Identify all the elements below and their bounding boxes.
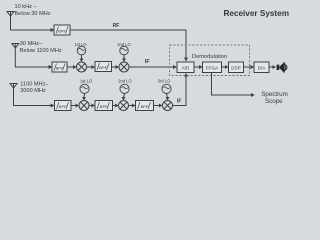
wire LO1 to mixer M1 [81,55,83,59]
wire IF run to A/D [129,66,173,68]
wire mixer M4 to BPF6 [129,105,133,107]
wire antenna3 to BPF4 [14,88,51,106]
arrow into BPF2 [49,65,53,69]
svg-text:1100 MHz–: 1100 MHz– [20,82,49,88]
oscillator LO5 (band3) [162,84,171,93]
svg-text:BPF: BPF [59,104,67,109]
node IF label (band2) [145,59,150,65]
svg-text:RF: RF [113,23,120,29]
arrow LO4 into mixer M4 [122,97,126,101]
arrow into mixer M3 [76,104,80,108]
filter BPF4 (band3 stage1) [55,101,72,111]
label 1st LO (band3) [80,78,92,83]
arrow into mixer M5 [159,104,163,108]
svg-text:1st LO: 1st LO [80,78,92,83]
svg-text:FPGA: FPGA [206,65,219,70]
wire RF run to A/D top [70,30,186,58]
wire mixer M1 to BPF3 [87,66,92,68]
wire antenna2 to BPF2 [15,48,48,67]
filter BPF2 (band2 stage1) [52,62,67,72]
wire LO2 to mixer M2 [123,55,125,59]
wire LO4 to mixer M4 [124,93,125,97]
svg-text:D/A: D/A [258,65,267,70]
arrow into speaker [273,65,277,69]
block D/A [254,62,269,73]
svg-text:Scope: Scope [265,98,283,105]
arrow into mixer M1 [73,65,77,69]
arrow LO1 into mixer M1 [80,59,84,63]
oscillator LO3 (band3) [80,84,89,93]
label 2nd LO (band2) [117,42,130,47]
arrow into mixer M2 [116,65,120,69]
speaker SPK1 [277,62,288,74]
label band 1 [15,4,51,17]
arrow into BPF5 [92,104,96,108]
svg-text:3000 MHz: 3000 MHz [20,88,46,94]
filter BPF5 (band3 stage2) [95,101,113,111]
wire LO5 to mixer M5 [167,93,168,97]
svg-text:IF: IF [177,98,181,104]
wire BPF4 to mixer M3 [71,105,76,107]
svg-text:3rd LO: 3rd LO [158,78,171,83]
wire BPF3 to mixer M2 [112,66,116,68]
wire A/D to FPGA [194,66,199,68]
mixer M5 [163,101,173,111]
label 3rd LO (band3) [158,78,171,83]
wire D/A to speaker [269,66,273,68]
svg-text:2nd LO: 2nd LO [118,78,131,83]
svg-text:A/D: A/D [182,65,190,70]
wire FPGA to spectrum scope [212,73,252,96]
arrow LO5 into mixer M5 [166,97,170,101]
oscillator LO2 (band2) [120,46,129,55]
mixer M3 [79,101,89,111]
mixer M2 [119,62,129,72]
wire mixer M3 to BPF5 [89,105,92,107]
arrow LO3 into mixer M3 [82,97,86,101]
antenna ANT2 [12,44,19,49]
node IF label (band3) [177,98,181,104]
arrow to spectrum scope [251,93,255,97]
antenna ANT1 [7,12,14,17]
mixer M1 [77,62,87,72]
svg-text:BPF: BPF [58,29,66,34]
arrow into BPF6 [132,104,136,108]
wire IF run to A/D bottom [173,77,187,106]
block FPGA [203,62,222,73]
filter BPF6 (band3 stage3) [136,101,154,111]
svg-text:DSP: DSP [231,65,240,70]
arrow into BPF1 [51,28,55,32]
label band 3 [20,82,49,95]
arrow LO2 into mixer M2 [122,59,126,63]
svg-text:BPF: BPF [100,104,108,109]
arrow into A/D left [173,65,177,69]
arrow into FPGA [199,65,203,69]
arrow into D/A [251,65,255,69]
label Spectrum Scope [261,91,287,105]
svg-text:Below 30 MHz: Below 30 MHz [15,11,51,17]
svg-text:IF: IF [145,59,150,65]
svg-text:BPF: BPF [141,104,149,109]
arrow into DSP [225,65,229,69]
svg-text:30 MHz–: 30 MHz– [20,41,43,47]
mixer M4 [119,101,129,111]
title Receiver System [223,9,289,18]
oscillator LO1 (band2) [77,46,86,55]
label Demodulation [192,54,227,60]
wire DSP to D/A [244,66,251,68]
label 1st LO (band2) [74,42,86,47]
wire BPF5 to mixer M4 [113,105,116,107]
svg-text:Demodulation: Demodulation [192,54,227,60]
wire FPGA to DSP [222,66,226,68]
svg-text:Receiver System: Receiver System [223,9,289,18]
antenna ANT3 [10,84,17,89]
label 2nd LO (band3) [118,78,131,83]
arrow into A/D top [184,58,188,62]
oscillator LO4 (band3) [120,84,129,93]
wire antenna1 to BPF1 [11,16,51,30]
arrow into BPF4 [51,104,55,108]
svg-text:Below 1100 MHz: Below 1100 MHz [20,48,62,54]
label band 2 [20,41,62,54]
wire LO3 to mixer M3 [83,93,86,97]
arrow into mixer M4 [115,104,119,108]
svg-text:BPF: BPF [99,65,107,70]
node RF label [113,23,120,29]
block DSP [229,62,244,73]
svg-text:10 kHz –: 10 kHz – [15,4,38,10]
block A/D [177,62,194,73]
dashed demodulation box [170,45,250,76]
arrow into A/D bottom [184,73,188,77]
filter BPF3 (band2 stage2) [95,62,112,72]
arrow into BPF3 [92,65,96,69]
wire BPF6 to mixer M5 [154,105,160,107]
wire BPF2 to mixer M1 [67,66,73,68]
filter BPF1 (band1) [54,25,70,35]
